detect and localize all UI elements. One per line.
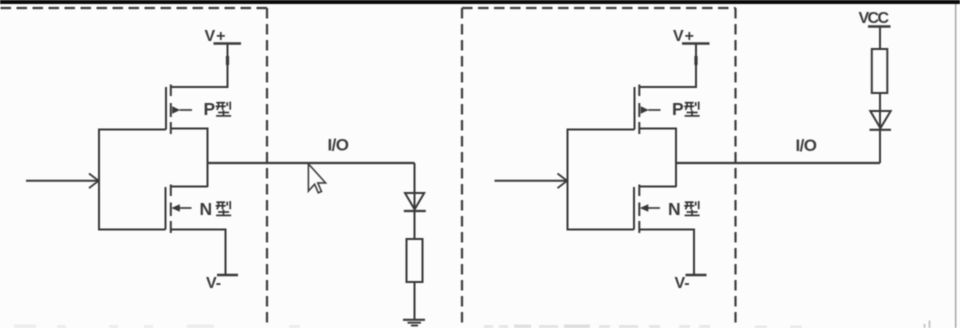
svg-text:VCC: VCC	[859, 10, 890, 27]
svg-text:I/O: I/O	[328, 136, 350, 155]
svg-text:I/O: I/O	[796, 136, 818, 155]
